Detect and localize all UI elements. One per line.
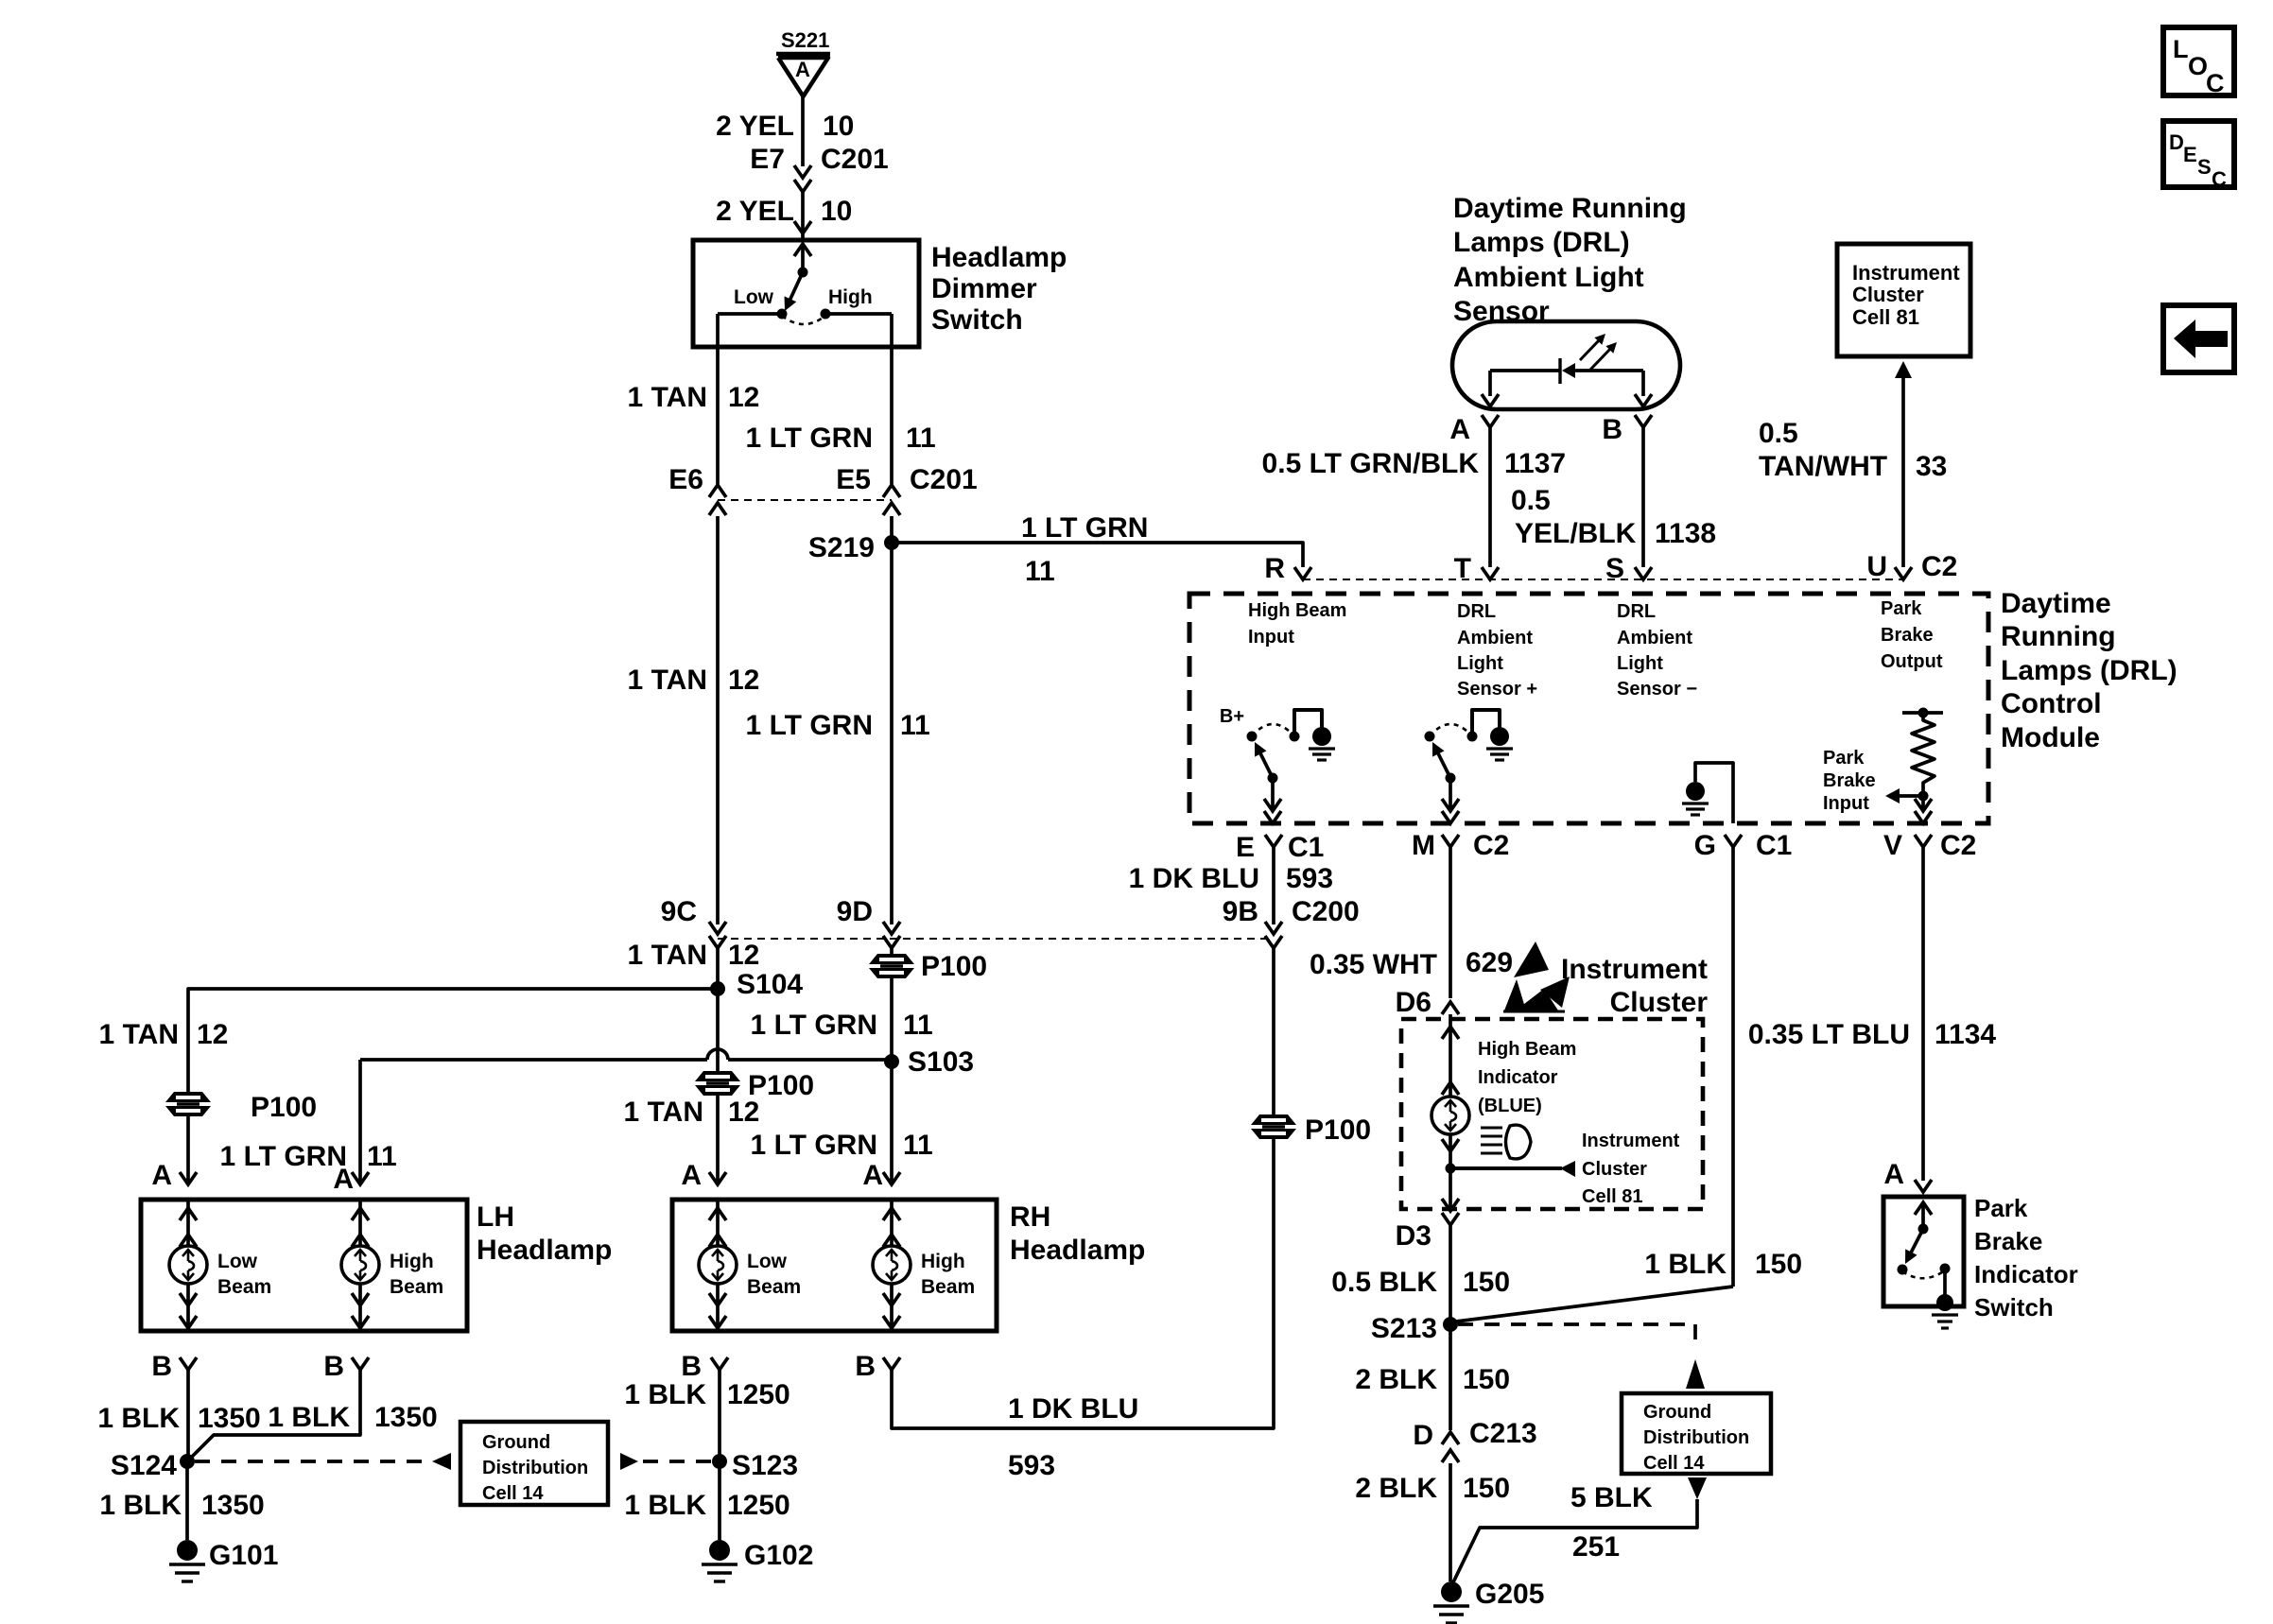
dashed reference to ground distribution — [195, 1453, 451, 1470]
label 5 BLK 251 — [1570, 1482, 1653, 1563]
wire 1 TAN to LH low beam A — [186, 1115, 190, 1183]
splice S103 — [884, 1046, 974, 1078]
svg-text:High: High — [828, 286, 873, 308]
RH low beam bulb — [699, 1200, 801, 1331]
svg-text:Indicator: Indicator — [1478, 1067, 1558, 1088]
svg-text:1 BLK: 1 BLK — [624, 1379, 706, 1410]
svg-text:V: V — [1883, 830, 1902, 861]
wire 1 BLK 1350 to G101 — [185, 1461, 189, 1540]
svg-text:Switch: Switch — [931, 304, 1023, 336]
splice S219 — [808, 532, 899, 563]
high beam input label — [1248, 600, 1346, 648]
svg-text:(BLUE): (BLUE) — [1478, 1096, 1542, 1116]
svg-text:11: 11 — [906, 423, 936, 454]
DRL sensor input switch — [1425, 710, 1514, 823]
svg-text:Park: Park — [1881, 598, 1922, 619]
wire 1 TAN 12 left drop — [716, 516, 720, 924]
svg-text:Instrument: Instrument — [1561, 954, 1708, 985]
svg-text:High: High — [390, 1251, 434, 1272]
RH headlamp box — [672, 1200, 997, 1331]
svg-text:Input: Input — [1823, 793, 1869, 814]
connector C201 terminal E7 — [750, 144, 888, 192]
svg-text:Running: Running — [2001, 621, 2116, 652]
wire 1 LT GRN to LH high beam — [360, 1049, 892, 1183]
svg-text:0.5 BLK: 0.5 BLK — [1331, 1267, 1437, 1298]
inline connector P100 right drop — [869, 948, 987, 982]
svg-text:P100: P100 — [1305, 1114, 1371, 1146]
label 1 LT GRN 11 below switch — [746, 423, 936, 454]
instrument cluster cell 81 box — [1837, 244, 1970, 356]
svg-text:12: 12 — [728, 1097, 759, 1128]
svg-text:B: B — [1602, 414, 1622, 445]
svg-text:1 BLK: 1 BLK — [624, 1490, 706, 1521]
svg-text:12: 12 — [728, 940, 759, 971]
label 1 LT GRN 11 mid — [746, 710, 930, 741]
svg-text:2 YEL: 2 YEL — [716, 111, 794, 142]
svg-text:E: E — [2183, 143, 2197, 166]
svg-text:Cell 81: Cell 81 — [1582, 1186, 1642, 1207]
high beam indicator label — [1478, 1039, 1576, 1116]
svg-text:150: 150 — [1755, 1249, 1802, 1280]
ground distribution cell 14 box left — [460, 1422, 608, 1505]
wire 2 YEL 10 to dimmer switch — [794, 192, 811, 240]
module terminal R — [1264, 553, 1311, 584]
svg-text:Cluster: Cluster — [1610, 987, 1709, 1018]
svg-text:Ambient: Ambient — [1617, 628, 1692, 648]
svg-text:S219: S219 — [808, 532, 875, 563]
dimmer switch Low contact — [734, 286, 788, 320]
svg-text:S: S — [2197, 155, 2212, 179]
dimmer high output wire — [825, 314, 892, 484]
svg-text:C213: C213 — [1469, 1418, 1537, 1449]
svg-text:B: B — [151, 1351, 172, 1382]
svg-text:1 LT GRN: 1 LT GRN — [746, 710, 873, 741]
svg-text:Cell 81: Cell 81 — [1852, 305, 1919, 329]
svg-text:1 BLK: 1 BLK — [99, 1490, 182, 1521]
svg-text:D: D — [2169, 130, 2184, 154]
label P100 center — [748, 1070, 814, 1101]
svg-text:1 LT GRN: 1 LT GRN — [751, 1130, 877, 1161]
svg-text:629: 629 — [1466, 947, 1513, 978]
module internal ground for sensor minus — [1682, 763, 1733, 823]
svg-text:Brake: Brake — [1881, 625, 1934, 646]
module terminal T — [1454, 553, 1499, 584]
label 1 TAN 12 below switch — [628, 382, 760, 413]
instrument cluster dashed box — [1401, 1019, 1703, 1209]
wire 0.5 YEL/BLK 1138 — [1641, 427, 1645, 567]
headlamp dimmer switch box — [693, 240, 919, 347]
svg-text:0.35 WHT: 0.35 WHT — [1310, 949, 1437, 980]
module terminal G C1 — [1694, 830, 1793, 861]
svg-text:A: A — [1449, 414, 1470, 445]
label 1 TAN 12 below 9C — [628, 940, 760, 971]
svg-text:150: 150 — [1463, 1364, 1510, 1395]
svg-text:M: M — [1412, 830, 1435, 861]
ground distribution cell 14 box right — [1622, 1393, 1771, 1474]
svg-text:1 DK BLU: 1 DK BLU — [1008, 1393, 1138, 1425]
svg-text:Ambient Light: Ambient Light — [1453, 262, 1644, 293]
svg-text:Ambient: Ambient — [1457, 628, 1533, 648]
wire 2 BLK 150 upper — [1449, 1324, 1452, 1430]
connector C213 terminal D — [1413, 1418, 1536, 1462]
wire 1 BLK 1250 RH low — [718, 1370, 721, 1461]
svg-text:9B: 9B — [1223, 896, 1258, 927]
svg-text:1 BLK: 1 BLK — [268, 1402, 350, 1433]
svg-text:Instrument: Instrument — [1852, 261, 1960, 285]
svg-text:11: 11 — [903, 1010, 933, 1041]
DRL control module label — [2001, 588, 2178, 753]
label 0.35 WHT 629 — [1310, 947, 1513, 980]
svg-text:High: High — [921, 1251, 965, 1272]
wire 0.5 LT GRN/BLK 1137 — [1488, 427, 1492, 567]
wire 1 TAN to LH headlamp — [188, 989, 718, 1097]
label 2 YEL 10 upper — [716, 111, 854, 142]
svg-text:Distribution: Distribution — [482, 1458, 588, 1478]
DESC legend box — [2163, 121, 2234, 191]
svg-text:G102: G102 — [744, 1540, 813, 1571]
high beam indicator bulb — [1431, 1019, 1469, 1168]
svg-text:1 LT GRN: 1 LT GRN — [1021, 512, 1148, 544]
headlamp beam icon — [1481, 1125, 1531, 1159]
LH headlamp box — [141, 1200, 467, 1331]
dimmer switch common arm — [785, 244, 811, 311]
wire 2 BLK 150 lower — [1449, 1463, 1452, 1581]
svg-text:1138: 1138 — [1655, 518, 1716, 549]
label 0.5 LT GRN/BLK 1137 — [1262, 448, 1567, 479]
svg-text:1 DK BLU: 1 DK BLU — [1129, 863, 1259, 894]
RH high beam bulb — [873, 1200, 975, 1331]
svg-text:E7: E7 — [750, 144, 785, 175]
svg-text:1250: 1250 — [727, 1490, 790, 1521]
splice S104 — [710, 948, 803, 1000]
svg-text:2 YEL: 2 YEL — [716, 196, 794, 227]
connector C201 interface dashed line — [718, 499, 892, 501]
ground G102 — [702, 1540, 813, 1581]
splice S213 — [1371, 1313, 1458, 1344]
ground G101 — [169, 1540, 278, 1581]
back arrow button — [2163, 305, 2234, 372]
label 1 BLK 1350 left lower — [99, 1490, 264, 1521]
connector C201 terminal E6 — [668, 464, 726, 515]
wire 1 BLK 1250 to G102 — [718, 1461, 721, 1540]
RH headlamp label — [1010, 1201, 1145, 1266]
svg-text:T: T — [1454, 553, 1471, 584]
DRL ambient light sensor body — [1452, 321, 1680, 409]
wire 1 LT GRN 11 to DRL module input R — [892, 543, 1303, 567]
svg-text:Switch: Switch — [1974, 1293, 2054, 1322]
label 1 LT GRN 11 above RH box — [751, 1130, 933, 1161]
svg-text:High Beam: High Beam — [1478, 1039, 1576, 1060]
svg-text:1 TAN: 1 TAN — [624, 1097, 703, 1128]
svg-text:1 BLK: 1 BLK — [97, 1403, 180, 1434]
svg-text:33: 33 — [1916, 451, 1947, 482]
svg-text:Park: Park — [1974, 1194, 2028, 1222]
svg-text:C201: C201 — [910, 464, 978, 495]
svg-text:S221: S221 — [781, 28, 829, 52]
svg-text:Instrument: Instrument — [1582, 1131, 1680, 1151]
svg-text:G: G — [1694, 830, 1716, 861]
svg-text:E6: E6 — [668, 464, 703, 495]
RH headlamp terminal B high — [855, 1351, 900, 1382]
label 1 BLK 150 — [1644, 1249, 1802, 1280]
high beam input switch B+ — [1220, 706, 1335, 823]
dimmer low output wire — [718, 314, 782, 484]
svg-text:Low: Low — [747, 1251, 788, 1272]
inline connector P100 high beam — [1251, 1114, 1371, 1146]
wire 0.5 TAN/WHT 33 to instrument cluster — [1895, 361, 1912, 567]
park brake indicator switch label — [1974, 1194, 2078, 1322]
svg-text:B: B — [323, 1351, 344, 1382]
splice S123 — [712, 1450, 798, 1481]
wire 1 LT GRN to RH high beam A — [890, 1062, 894, 1183]
label 0.5 YEL/BLK 1138 — [1511, 485, 1716, 549]
svg-text:10: 10 — [821, 196, 852, 227]
splice S124 — [111, 1450, 195, 1481]
svg-text:Beam: Beam — [921, 1276, 975, 1298]
svg-text:C201: C201 — [821, 144, 889, 175]
RH headlamp terminal B low — [681, 1351, 728, 1382]
photodiode inside sensor — [1482, 334, 1652, 406]
svg-text:Sensor +: Sensor + — [1457, 679, 1537, 700]
dimmer switch High contact — [821, 286, 873, 320]
svg-text:1350: 1350 — [198, 1403, 261, 1434]
svg-text:Light: Light — [1617, 653, 1663, 674]
headlamp dimmer switch label — [931, 242, 1067, 336]
svg-text:C1: C1 — [1288, 832, 1324, 863]
svg-text:Cell 14: Cell 14 — [482, 1483, 544, 1504]
svg-text:S: S — [1605, 553, 1624, 584]
svg-text:Daytime: Daytime — [2001, 588, 2111, 619]
label 1 BLK 1350 diagonal — [268, 1402, 437, 1433]
svg-text:1 LT GRN: 1 LT GRN — [746, 423, 873, 454]
svg-text:L: L — [2173, 35, 2189, 63]
dashed reference to S123 — [620, 1453, 712, 1470]
svg-text:1 BLK: 1 BLK — [1644, 1249, 1726, 1280]
svg-text:S213: S213 — [1371, 1313, 1437, 1344]
svg-text:Light: Light — [1457, 653, 1503, 674]
wire 1 TAN through P100 to RH low beam — [695, 989, 740, 1183]
svg-text:Headlamp: Headlamp — [931, 242, 1067, 273]
svg-text:Lamps (DRL): Lamps (DRL) — [2001, 655, 2178, 686]
svg-text:G205: G205 — [1475, 1579, 1544, 1610]
RH headlamp terminal A low — [681, 1160, 726, 1191]
power feed splice S221 — [776, 28, 830, 96]
LH high beam bulb — [341, 1200, 443, 1331]
svg-text:Cell 14: Cell 14 — [1643, 1453, 1705, 1474]
svg-text:593: 593 — [1008, 1450, 1055, 1481]
svg-text:12: 12 — [728, 382, 759, 413]
svg-text:C1: C1 — [1756, 830, 1792, 861]
svg-text:Control: Control — [2001, 688, 2102, 719]
svg-text:Beam: Beam — [747, 1276, 801, 1298]
wire 0.35 WHT 629 — [1449, 847, 1452, 998]
svg-text:TAN/WHT: TAN/WHT — [1759, 451, 1887, 482]
svg-text:11: 11 — [367, 1141, 397, 1172]
module terminal V C2 — [1883, 830, 1976, 861]
svg-text:D6: D6 — [1396, 987, 1431, 1018]
svg-text:Headlamp: Headlamp — [477, 1235, 612, 1266]
svg-text:A: A — [795, 58, 810, 81]
svg-text:O: O — [2188, 52, 2208, 80]
svg-text:1250: 1250 — [727, 1379, 790, 1410]
svg-text:B: B — [681, 1351, 702, 1382]
label 0.5 BLK 150 — [1331, 1267, 1510, 1298]
svg-text:C2: C2 — [1921, 551, 1957, 582]
label 1 TAN 12 far left — [99, 1019, 229, 1050]
svg-text:Sensor −: Sensor − — [1617, 679, 1697, 700]
svg-text:E: E — [1236, 832, 1255, 863]
svg-text:2 BLK: 2 BLK — [1355, 1364, 1437, 1395]
connector C200 interface dashed line — [718, 938, 1274, 940]
svg-text:DRL: DRL — [1617, 601, 1656, 622]
svg-text:12: 12 — [197, 1019, 228, 1050]
svg-text:High Beam: High Beam — [1248, 600, 1346, 621]
svg-text:593: 593 — [1286, 863, 1333, 894]
label 1 DK BLU 593 horizontal — [1008, 1393, 1138, 1481]
svg-text:YEL/BLK: YEL/BLK — [1515, 518, 1637, 549]
wire 0.5 BLK 150 — [1449, 1225, 1452, 1324]
svg-text:11: 11 — [1025, 556, 1055, 587]
reference to instrument cluster cell 81 — [1446, 1131, 1680, 1207]
label 1 LT GRN 11 horizontal — [1021, 512, 1148, 587]
module terminal E C1 — [1236, 832, 1324, 863]
svg-text:B+: B+ — [1220, 706, 1244, 727]
RH headlamp terminal A high — [862, 1160, 900, 1191]
svg-text:0.5: 0.5 — [1511, 485, 1551, 516]
svg-text:Ground: Ground — [482, 1432, 550, 1453]
svg-text:S124: S124 — [111, 1450, 177, 1481]
svg-text:A: A — [862, 1160, 883, 1191]
svg-text:1137: 1137 — [1504, 448, 1566, 479]
wire 1 BLK 1350 LH low — [186, 1370, 190, 1461]
wire 1 LT GRN 11 right drop — [890, 516, 894, 924]
svg-text:LH: LH — [477, 1201, 514, 1233]
svg-text:11: 11 — [900, 710, 930, 741]
sensor terminal B — [1602, 414, 1652, 445]
svg-text:C2: C2 — [1940, 830, 1976, 861]
svg-text:C200: C200 — [1292, 896, 1360, 927]
svg-text:2 BLK: 2 BLK — [1355, 1473, 1437, 1504]
svg-text:A: A — [151, 1160, 172, 1191]
svg-text:12: 12 — [728, 665, 759, 696]
LOC legend box — [2163, 27, 2234, 97]
svg-text:P100: P100 — [921, 951, 987, 982]
connector C201 terminal E5 — [836, 464, 977, 515]
svg-text:B: B — [855, 1351, 876, 1382]
svg-text:A: A — [1883, 1159, 1904, 1190]
svg-text:Headlamp: Headlamp — [1010, 1235, 1145, 1266]
svg-text:Ground: Ground — [1643, 1402, 1711, 1423]
svg-text:RH: RH — [1010, 1201, 1050, 1233]
ESD sensitive symbol — [1503, 942, 1570, 1011]
label 2 YEL 10 lower — [716, 196, 852, 227]
svg-text:11: 11 — [903, 1130, 933, 1161]
connector C200 terminal 9C — [661, 896, 726, 948]
svg-text:C2: C2 — [1473, 830, 1509, 861]
park brake input label — [1823, 748, 1876, 814]
label 1 TAN 12 mid — [628, 665, 760, 696]
svg-text:S103: S103 — [908, 1046, 974, 1078]
svg-text:S123: S123 — [732, 1450, 798, 1481]
dashed reference S213 to ground distribution — [1458, 1324, 1705, 1389]
connector D6 — [1396, 987, 1459, 1019]
svg-text:P100: P100 — [251, 1092, 317, 1123]
label 1 DK BLU 593 upper — [1129, 863, 1333, 894]
svg-text:C: C — [2212, 167, 2227, 191]
park brake output label — [1881, 598, 1943, 672]
svg-text:Input: Input — [1248, 627, 1294, 648]
connector D3 — [1396, 1168, 1459, 1252]
svg-text:Beam: Beam — [390, 1276, 443, 1298]
dimmer switch throw arc — [782, 316, 825, 324]
svg-text:1 TAN: 1 TAN — [99, 1019, 179, 1050]
label 2 BLK 150 lower — [1355, 1473, 1510, 1504]
svg-text:Output: Output — [1881, 651, 1943, 672]
svg-text:G101: G101 — [209, 1540, 278, 1571]
wire 1 BLK 150 from module G — [1456, 847, 1733, 1322]
label 1 BLK 1250 upper — [624, 1379, 789, 1410]
label 1 BLK 1250 lower — [624, 1490, 789, 1521]
label 0.5 TAN/WHT 33 — [1759, 418, 1947, 482]
svg-text:5 BLK: 5 BLK — [1570, 1482, 1653, 1513]
module terminal S — [1605, 553, 1652, 584]
svg-text:Module: Module — [2001, 722, 2100, 753]
module connector row dashed interface — [1303, 579, 1903, 580]
svg-text:D3: D3 — [1396, 1220, 1431, 1252]
daytime running lamps DRL control module box — [1189, 594, 1988, 823]
park brake indicator switch box — [1883, 1197, 1964, 1306]
svg-text:U: U — [1866, 551, 1887, 582]
svg-text:Low: Low — [217, 1251, 258, 1272]
svg-text:9D: 9D — [837, 896, 873, 927]
svg-text:Daytime Running: Daytime Running — [1453, 193, 1687, 224]
svg-text:E5: E5 — [836, 464, 871, 495]
svg-text:0.35 LT BLU: 0.35 LT BLU — [1748, 1019, 1910, 1050]
label 2 BLK 150 upper — [1355, 1364, 1510, 1395]
svg-text:9C: 9C — [661, 896, 697, 927]
wire 1 BLK 1350 LH high to S124 — [187, 1370, 360, 1461]
svg-text:Cluster: Cluster — [1852, 283, 1924, 306]
svg-text:D: D — [1413, 1420, 1433, 1451]
connector C200 terminal 9B — [1223, 896, 1360, 948]
svg-text:1 LT GRN: 1 LT GRN — [751, 1010, 877, 1041]
label 1 LT GRN 11 below P100 — [751, 1010, 933, 1041]
wire 5 BLK 251 — [1452, 1477, 1707, 1584]
wire 0.35 LT BLU 1134 — [1921, 847, 1925, 1181]
svg-text:R: R — [1264, 553, 1285, 584]
svg-text:Indicator: Indicator — [1974, 1260, 2078, 1288]
wire 1 DK BLU 593 from RH high beam — [892, 1138, 1274, 1428]
svg-text:10: 10 — [823, 111, 854, 142]
svg-text:Park: Park — [1823, 748, 1865, 769]
label 1 LT GRN 11 LH high beam — [220, 1141, 397, 1172]
instrument cluster label — [1561, 954, 1708, 1018]
DRL ambient light sensor plus label — [1457, 601, 1537, 700]
LH headlamp terminal A low — [151, 1160, 197, 1191]
svg-text:1350: 1350 — [201, 1490, 265, 1521]
svg-text:Low: Low — [734, 286, 774, 308]
svg-text:Lamps (DRL): Lamps (DRL) — [1453, 227, 1630, 258]
svg-text:DRL: DRL — [1457, 601, 1496, 622]
svg-text:1350: 1350 — [374, 1402, 438, 1433]
wire 2 YEL 10 from S221 — [801, 96, 805, 166]
svg-text:A: A — [681, 1160, 702, 1191]
svg-text:1 TAN: 1 TAN — [628, 382, 707, 413]
svg-text:Beam: Beam — [217, 1276, 271, 1298]
svg-text:1134: 1134 — [1935, 1019, 1996, 1050]
LH headlamp terminal A high — [333, 1164, 369, 1195]
sensor terminal A — [1449, 414, 1499, 445]
